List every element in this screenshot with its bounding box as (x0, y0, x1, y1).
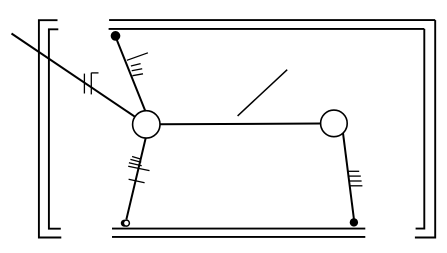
inner right bracket (416, 29, 425, 229)
flag tick on diagonal bar mark (91, 72, 98, 74)
bar from top pivot dot to joint J1 (115, 35, 145, 111)
joint circle J2 (321, 110, 348, 137)
tick 4 on lower-right bar (350, 185, 363, 187)
bar from joint J1 to bottom-left pivot (126, 138, 145, 219)
bottom-right pivot dot (350, 218, 358, 226)
tick 3 on lower-right bar (349, 180, 362, 182)
double tick mark left stroke on diagonal bar (83, 74, 85, 94)
coupler bar between joints (158, 123, 322, 126)
bottom rail upper line (112, 228, 365, 230)
short tick 1 on lower-left bar (132, 157, 140, 160)
long diagonal bar from outside to joint J1 (12, 34, 135, 117)
outer left bracket (39, 20, 61, 237)
outer right bracket (415, 20, 435, 237)
bottom-left filled pivot dot (121, 220, 128, 227)
tick 1 on lower-right bar (348, 170, 359, 172)
bottom-left open pivot circle (123, 220, 129, 226)
top pivot dot (111, 31, 121, 41)
low tick on lower-left bar (129, 179, 145, 182)
short tick 2 on top bar (132, 69, 143, 71)
short tick 3 on lower-left bar (129, 163, 142, 166)
top rail upper line (109, 19, 435, 21)
leader slash above coupler bar (238, 70, 288, 116)
tick 2 on lower-right bar (349, 175, 361, 177)
short tick 1 on top bar (131, 64, 141, 66)
top rail lower line (109, 28, 425, 30)
long tick on lower-left bar (128, 166, 149, 170)
joint circle J1 (133, 111, 160, 138)
long tick on top bar (127, 53, 148, 61)
bottom rail lower line (112, 236, 365, 238)
double tick mark right stroke on diagonal bar (90, 73, 92, 95)
short tick 2 on lower-left bar (130, 159, 141, 162)
short tick 3 on top bar (133, 74, 144, 76)
inner left bracket (49, 29, 61, 228)
bar from joint J2 to bottom-right pivot dot (343, 133, 354, 222)
